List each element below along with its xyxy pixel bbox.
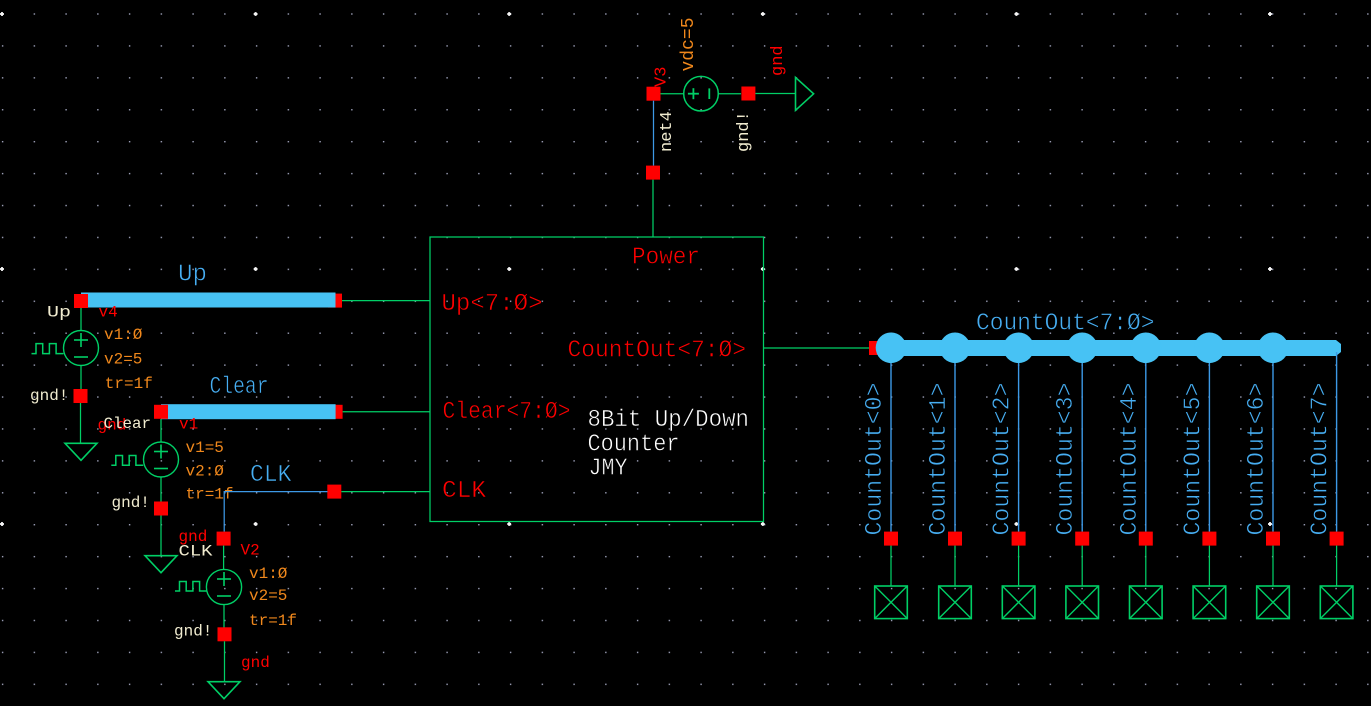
net label Up xyxy=(47,304,71,322)
svg-text:CountOut<1>: CountOut<1> xyxy=(926,383,953,536)
net label CountOut<7> xyxy=(1308,383,1335,536)
pin label Power xyxy=(632,245,700,272)
wire net4 xyxy=(653,101,655,166)
svg-text:gnd!: gnd! xyxy=(112,494,150,512)
wire stub to noConn CountOut<0> xyxy=(890,546,892,586)
svg-text:Clear: Clear xyxy=(104,415,152,433)
bus Up xyxy=(81,293,336,308)
svg-text:V3: V3 xyxy=(653,67,672,87)
pin label CountOut<7:0> xyxy=(568,338,747,365)
svg-text:CountOut<7:Ø>: CountOut<7:Ø> xyxy=(976,311,1155,338)
svg-text:gnd!: gnd! xyxy=(174,623,212,641)
svg-text:CLK: CLK xyxy=(179,543,213,561)
svg-text:CLK: CLK xyxy=(250,462,292,489)
counter instance I0 8Bit Up/Down Counter xyxy=(430,237,764,522)
no-connect symbol CountOut<5> xyxy=(1193,586,1226,619)
svg-text:v2:Ø: v2:Ø xyxy=(186,463,225,481)
no-connect symbol CountOut<7> xyxy=(1320,586,1353,619)
svg-text:v1:Ø: v1:Ø xyxy=(104,326,143,344)
pin V3 minus terminal xyxy=(741,87,755,101)
label gnd! V2 xyxy=(174,623,212,641)
pin V1 minus terminal xyxy=(154,502,168,516)
svg-text:gnd: gnd xyxy=(241,654,270,672)
wire stub to noConn CountOut<7> xyxy=(1336,546,1338,586)
wire CountOut<5> drop xyxy=(1208,352,1210,532)
svg-text:v2=5: v2=5 xyxy=(104,351,142,369)
bus label Clear xyxy=(210,374,269,401)
instance text 8Bit Up/Down Counter JMY xyxy=(588,407,750,483)
svg-text:CountOut<7>: CountOut<7> xyxy=(1308,383,1335,536)
svg-text:v1=5: v1=5 xyxy=(186,439,224,457)
svg-text:v2=5: v2=5 xyxy=(249,587,287,605)
wire CountOut<2> drop xyxy=(1018,352,1020,532)
svg-text:vdc=5: vdc=5 xyxy=(679,17,699,71)
net label CLK white xyxy=(179,543,213,561)
svg-text:CountOut<0>: CountOut<0> xyxy=(862,383,889,536)
wire CountOut<4> drop xyxy=(1145,352,1147,532)
label V3 xyxy=(653,67,672,87)
wire stub to noConn CountOut<5> xyxy=(1208,546,1210,586)
svg-text:gnd!: gnd! xyxy=(30,387,68,405)
pin V3 plus terminal xyxy=(647,87,661,101)
pin CLK (left) xyxy=(327,485,430,499)
pin noConn CountOut<3> xyxy=(1075,532,1089,546)
no-connect symbol CountOut<6> xyxy=(1257,586,1290,619)
label gnd xyxy=(769,45,788,76)
net label CountOut<3> xyxy=(1053,383,1080,536)
pin Up<7:0> (left) xyxy=(328,294,430,308)
label V2 xyxy=(241,542,260,560)
svg-text:Counter: Counter xyxy=(588,432,680,459)
wire CountOut<1> drop xyxy=(954,352,956,532)
net label net4 xyxy=(658,111,677,152)
svg-text:Clear: Clear xyxy=(210,374,269,401)
value labels V1 xyxy=(186,439,234,504)
wire CLK xyxy=(224,491,327,532)
wire stub to noConn CountOut<4> xyxy=(1145,546,1147,586)
wire stub to noConn CountOut<6> xyxy=(1272,546,1274,586)
ground symbol top right xyxy=(796,77,814,110)
pin V1 plus terminal xyxy=(154,405,168,419)
wire CountOut<0> drop xyxy=(890,352,892,532)
value label vdc=5 xyxy=(679,17,699,71)
svg-text:gnd!: gnd! xyxy=(735,111,754,152)
pin noConn CountOut<7> xyxy=(1330,532,1344,546)
label gnd (V1 net) xyxy=(98,417,127,435)
bus CountOut<7:0> xyxy=(878,340,1341,356)
no-connect symbol CountOut<2> xyxy=(1002,586,1035,619)
net label CountOut<4> xyxy=(1117,383,1144,536)
svg-text:V2: V2 xyxy=(241,542,260,560)
no-connect symbol CountOut<3> xyxy=(1066,586,1099,619)
net label CountOut<5> xyxy=(1180,383,1207,536)
svg-text:CountOut<4>: CountOut<4> xyxy=(1117,383,1144,536)
pin label CLK xyxy=(442,478,486,505)
pin V2 minus terminal xyxy=(218,627,232,641)
svg-text:CountOut<2>: CountOut<2> xyxy=(990,383,1017,536)
pin noConn CountOut<1> xyxy=(948,532,962,546)
svg-text:Clear<7:Ø>: Clear<7:Ø> xyxy=(443,399,571,426)
wire to ground V4 xyxy=(80,403,82,443)
svg-text:v1: v1 xyxy=(179,416,198,434)
pin noConn CountOut<6> xyxy=(1266,532,1280,546)
svg-text:tr=1f: tr=1f xyxy=(105,375,153,393)
svg-text:CountOut<5>: CountOut<5> xyxy=(1180,383,1207,536)
pin Clear<7:0> (left) xyxy=(329,405,430,419)
bus tap junction CountOut<4> xyxy=(1131,333,1162,364)
wire stub to noConn CountOut<1> xyxy=(954,546,956,586)
wire stub to noConn CountOut<3> xyxy=(1081,546,1083,586)
voltage source V3 (vdc) xyxy=(660,76,741,111)
ground symbol V4 xyxy=(65,443,97,460)
svg-text:v1:Ø: v1:Ø xyxy=(249,565,288,583)
bus tap junction CountOut<6> xyxy=(1258,333,1289,364)
pin V4 plus terminal xyxy=(74,294,88,308)
svg-text:Up<7:Ø>: Up<7:Ø> xyxy=(442,291,543,318)
label gnd! V4 xyxy=(30,387,68,405)
voltage source V2 (vpulse) xyxy=(175,546,242,628)
pin noConn CountOut<4> xyxy=(1139,532,1153,546)
label gnd V2 xyxy=(241,654,270,672)
svg-text:net4: net4 xyxy=(658,111,677,152)
svg-text:tr=1f: tr=1f xyxy=(186,486,234,504)
svg-text:Power: Power xyxy=(632,245,700,272)
svg-text:gnd: gnd xyxy=(769,45,788,76)
net label Clear xyxy=(104,415,152,433)
bus tap junction CountOut<2> xyxy=(1003,333,1034,364)
label gnd! V1 xyxy=(112,494,150,512)
svg-text:CountOut<3>: CountOut<3> xyxy=(1053,383,1080,536)
bus label CountOut<7:0> xyxy=(976,311,1155,338)
ground symbol V1 xyxy=(145,556,177,573)
wire CountOut<7> drop xyxy=(1336,352,1338,532)
wire to ground V2 xyxy=(224,641,226,681)
wire CountOut<3> drop xyxy=(1081,352,1083,532)
ground symbol V2 xyxy=(208,682,240,699)
bus Clear xyxy=(161,404,336,419)
label gnd! xyxy=(735,111,754,152)
svg-text:CountOut<7:Ø>: CountOut<7:Ø> xyxy=(568,338,747,365)
voltage source V1 (vpulse) xyxy=(111,419,178,502)
bus label Up xyxy=(178,262,207,289)
pin label Up<7:0> xyxy=(442,291,543,318)
svg-text:8Bit Up/Down: 8Bit Up/Down xyxy=(588,407,750,434)
wire to ground V1 xyxy=(160,516,162,556)
svg-text:CLK: CLK xyxy=(442,478,486,505)
pin label Clear<7:0> xyxy=(443,399,571,426)
voltage source V4 (vpulse) xyxy=(32,308,99,389)
svg-text:Up: Up xyxy=(178,262,207,289)
bus tap junction CountOut<5> xyxy=(1194,333,1225,364)
no-connect symbol CountOut<1> xyxy=(939,586,972,619)
pin Power (top) xyxy=(646,166,660,237)
svg-text:JMY: JMY xyxy=(589,456,628,483)
pin noConn CountOut<5> xyxy=(1202,532,1216,546)
bus tap junction CountOut<3> xyxy=(1067,333,1098,364)
svg-text:CountOut<6>: CountOut<6> xyxy=(1244,383,1271,536)
value labels V2 xyxy=(249,565,297,630)
net label CLK (wire) xyxy=(250,462,292,489)
pin noConn CountOut<2> xyxy=(1012,532,1026,546)
wire gnd! from V3 minus to ground xyxy=(755,93,795,95)
label v1 xyxy=(179,416,198,434)
pin V4 minus terminal xyxy=(74,389,88,403)
bus tap junction CountOut<0> xyxy=(876,333,907,364)
pin noConn CountOut<0> xyxy=(884,532,898,546)
no-connect symbol CountOut<0> xyxy=(875,586,908,619)
net label CountOut<1> xyxy=(926,383,953,536)
label gnd (V2 region) xyxy=(179,528,208,546)
pin CountOut<7:0> (right) xyxy=(764,341,884,355)
svg-text:v4: v4 xyxy=(99,304,118,322)
value labels V4 xyxy=(104,326,153,393)
label v4 xyxy=(99,304,118,322)
no-connect symbol CountOut<4> xyxy=(1130,586,1163,619)
net label CountOut<0> xyxy=(862,383,889,536)
net label CountOut<2> xyxy=(990,383,1017,536)
wire CountOut<6> drop xyxy=(1272,352,1274,532)
svg-text:Up: Up xyxy=(47,304,71,322)
net label CountOut<6> xyxy=(1244,383,1271,536)
bus tap junction CountOut<1> xyxy=(940,333,971,364)
wire stub to noConn CountOut<2> xyxy=(1018,546,1020,586)
pin V2 plus terminal xyxy=(217,532,231,546)
svg-text:tr=1f: tr=1f xyxy=(249,612,297,630)
